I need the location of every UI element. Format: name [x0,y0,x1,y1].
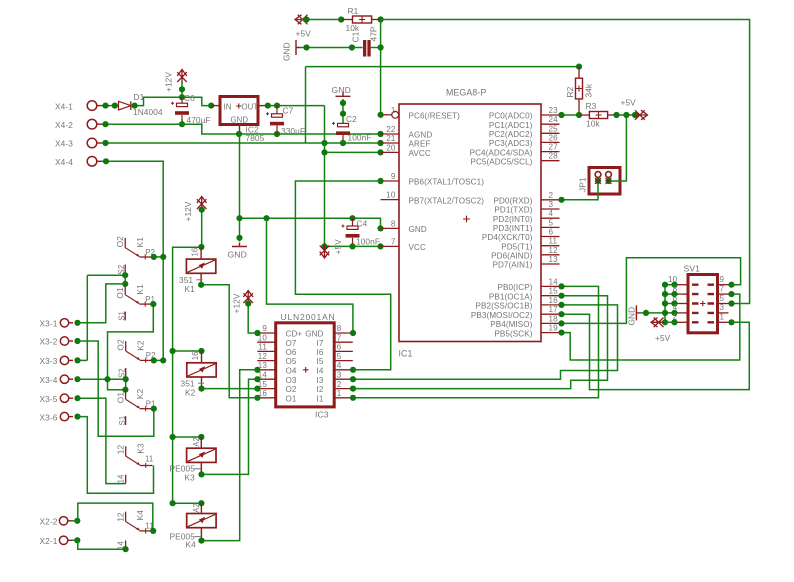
svg-text:I7: I7 [317,339,324,348]
svg-text:GND: GND [332,85,351,95]
svg-text:6: 6 [337,343,342,352]
svg-text:20: 20 [386,143,396,152]
svg-text:PB4(MISO): PB4(MISO) [490,320,532,329]
wire ULN I3 to PB2 [353,302,618,379]
wire PB4 MISO to SV1 pin9 [558,258,740,327]
svg-text:GND: GND [228,250,247,260]
svg-text:X3-1: X3-1 [40,319,58,329]
svg-text:S1: S1 [118,311,127,321]
svg-text:K4: K4 [135,510,145,521]
op-amp U1 IC1 MEGA8-P box [399,88,542,359]
svg-text:2: 2 [673,313,678,322]
svg-text:14: 14 [117,474,126,483]
svg-text:3: 3 [337,370,342,379]
svg-text:O4: O4 [286,366,297,375]
svg-text:PC1(ADC1): PC1(ADC1) [489,121,533,130]
svg-text:C4: C4 [357,218,368,228]
svg-text:O6: O6 [286,348,297,357]
wire X4-3 +5V AREF row [101,140,384,146]
svg-text:10: 10 [668,275,678,284]
svg-text:8: 8 [673,284,678,293]
svg-text:O1: O1 [115,287,125,299]
relay K4 coil [170,503,217,550]
svg-text:+12V: +12V [232,293,242,313]
svg-text:PD6(AIND): PD6(AIND) [491,252,533,261]
svg-text:34k: 34k [584,83,594,97]
wire ULN I1 to PB0 [353,283,599,398]
wire R3 to +5V [613,112,641,118]
diode D1 1N4004 [119,92,163,117]
wire C6 bottom to X4-2/GND rail [179,120,185,128]
IC1 pin1 junction dot [377,112,383,184]
svg-text:PC5(ADC5/SCL): PC5(ADC5/SCL) [470,157,532,166]
svg-text:IC1: IC1 [399,349,413,359]
svg-text:14: 14 [549,277,559,286]
svg-text:K4: K4 [186,540,197,550]
svg-text:GND: GND [409,225,427,234]
svg-text:PB7(XTAL2/TOSC2): PB7(XTAL2/TOSC2) [409,196,485,205]
wire X3-3 riser [78,275,88,360]
svg-text:+12V: +12V [183,201,193,221]
svg-text:VCC: VCC [409,243,426,252]
svg-text:PD3(INT1): PD3(INT1) [493,224,533,233]
wire X3-4 to K2a S and K2b O [78,376,129,393]
connector X4-1 [55,101,101,112]
svg-text:11: 11 [549,237,558,246]
svg-text:O2: O2 [286,385,297,394]
svg-text:C7: C7 [283,106,294,116]
svg-text:PC0(ADC0): PC0(ADC0) [489,112,533,121]
svg-text:X3-5: X3-5 [40,394,58,404]
svg-text:C2: C2 [346,114,357,124]
capacitor C2 100nF [332,99,372,143]
junction dots ULN pins [254,330,356,401]
wire PC0 row [558,112,582,118]
ground symbol GND (SV1) [627,305,641,325]
svg-text:1: 1 [720,313,725,322]
supply +5V arrow (R1 pull-up) [295,15,311,39]
relay K2 coil [181,351,217,397]
svg-text:AREF: AREF [409,140,431,149]
svg-text:X4-2: X4-2 [55,120,73,130]
svg-text:12: 12 [258,352,268,361]
svg-text:16: 16 [191,248,200,257]
svg-text:IC3: IC3 [315,410,329,420]
svg-text:12: 12 [549,246,559,255]
svg-text:K3: K3 [185,472,196,482]
connector X4-2 [55,119,101,130]
svg-text:X4-3: X4-3 [55,139,73,149]
relay K1 contact b [115,284,155,321]
svg-text:5: 5 [337,352,342,361]
svg-text:15: 15 [549,287,559,296]
svg-text:I1: I1 [317,394,324,403]
wire K1a S to X3-1/X3-3 [87,272,128,287]
svg-text:JP1: JP1 [578,177,588,192]
svg-text:PC3(ADC3): PC3(ADC3) [489,139,533,148]
svg-text:25: 25 [549,124,559,133]
svg-text:GND: GND [282,42,292,61]
wire PB5 SCK to SV1 pin7 [558,294,739,360]
svg-text:X2-1: X2-1 [40,536,58,546]
svg-text:C1: C1 [351,31,361,42]
svg-text:1: 1 [337,389,342,398]
svg-text:GND: GND [231,115,249,124]
svg-text:K3: K3 [135,443,145,454]
svg-text:SV1: SV1 [684,264,701,274]
wire K1 coil to ULN O1 [198,282,257,398]
svg-text:+12V: +12V [164,72,174,92]
svg-text:R3: R3 [586,101,597,111]
connector X2-1 [40,536,81,546]
relay K2 contact a [116,339,156,378]
wire GND rail to ULN pin8 [267,218,353,333]
svg-text:PD7(AIN1): PD7(AIN1) [492,261,532,270]
svg-text:18: 18 [549,314,559,323]
svg-text:+5V: +5V [296,28,312,38]
svg-text:R2: R2 [565,86,575,97]
svg-text:+5V: +5V [655,333,671,343]
svg-text:X4-1: X4-1 [55,101,73,111]
supply +5V arrow (VCC) [320,239,343,258]
wire K1a pivot to X4-4 line [151,254,167,260]
svg-text:21: 21 [386,134,396,143]
wire SV1 GND rows [640,282,677,326]
svg-text:PB1(OC1A): PB1(OC1A) [489,292,533,301]
ground symbol GND (C2) [332,85,351,96]
wire X3-1 to K1b O [78,284,126,323]
wire ULN I2 to PB1 [353,293,608,389]
connector X4-4 [55,157,101,168]
svg-text:O1: O1 [286,394,297,403]
svg-text:PB0(ICP): PB0(ICP) [498,283,533,292]
connector SV1 [668,264,729,333]
svg-text:I4: I4 [317,366,324,375]
wire C1 right to RESET [371,44,384,50]
svg-text:GND: GND [627,307,637,326]
svg-text:12: 12 [115,512,125,522]
svg-text:+5V: +5V [621,98,637,108]
svg-text:X4-4: X4-4 [55,157,73,167]
wire X2-1 to K4 pin14 [72,540,129,552]
jumper JP1 [578,168,621,195]
svg-text:7: 7 [337,333,342,342]
svg-text:PC6(/RESET): PC6(/RESET) [409,112,461,121]
svg-text:I3: I3 [317,376,324,385]
ground symbol GND (logic) [228,243,248,260]
resistor R3 10k [581,101,617,129]
relay K3 contact [116,443,154,484]
svg-text:GND: GND [305,330,323,339]
svg-text:4: 4 [549,209,554,218]
connector X2-2 [40,517,81,527]
svg-text:1N4004: 1N4004 [133,107,163,117]
supply +5V arrow (SV1 pin2) [651,318,677,344]
svg-text:K1: K1 [185,284,196,294]
connector X3 pads [40,319,74,423]
supply +12V arrow (ULN CD+) [232,291,258,334]
capacitor C7 330uF [265,103,325,136]
svg-text:K1: K1 [135,237,145,248]
svg-text:24: 24 [549,115,559,124]
svg-text:S1: S1 [118,416,127,426]
svg-text:9: 9 [720,275,725,284]
svg-text:10k: 10k [346,23,360,33]
relay K3 coil [170,437,217,482]
wire K2 coil to ULN O2 [198,386,257,392]
svg-text:I6: I6 [317,348,324,357]
svg-text:28: 28 [549,152,559,161]
svg-text:7: 7 [720,284,725,293]
IC3 ULN2001AN box [257,312,353,420]
junction dots R1 row [303,16,383,22]
svg-text:AVCC: AVCC [409,149,431,158]
svg-text:5: 5 [549,218,554,227]
svg-text:4: 4 [337,361,342,370]
svg-text:12: 12 [116,444,126,454]
svg-text:+5V: +5V [333,239,343,255]
relay K1 coil [179,247,216,294]
wire JP1 pin2 to +5V [605,115,626,184]
svg-text:11: 11 [145,455,153,464]
wire X3-6 to K3 pin11 [78,417,154,494]
svg-text:PB2(SS/OC1B): PB2(SS/OC1B) [476,302,533,311]
svg-text:ULN2001AN: ULN2001AN [281,312,336,322]
svg-text:C6: C6 [184,93,195,103]
svg-text:X3-4: X3-4 [40,375,58,385]
svg-text:5: 5 [720,294,725,303]
ground symbol GND (C1) [282,40,301,61]
svg-text:K2: K2 [185,387,196,397]
svg-text:X3-2: X3-2 [40,337,58,347]
svg-text:23: 23 [549,106,559,115]
svg-text:O2: O2 [116,339,126,351]
svg-text:1: 1 [391,106,396,115]
connector X4-3 [55,138,101,149]
voltage regulator IC2 7805 [211,97,268,144]
relay K4 contact [115,510,153,550]
svg-text:7: 7 [391,237,396,246]
svg-text:O5: O5 [286,357,297,366]
svg-text:10k: 10k [586,119,600,129]
wire +12V rail to coil tops [170,244,205,506]
svg-text:O1: O1 [115,392,125,404]
svg-text:PD0(RXD): PD0(RXD) [493,197,532,206]
svg-text:K1: K1 [135,284,145,295]
junction dots X3 [74,320,80,420]
svg-text:R1: R1 [348,6,359,16]
svg-text:100nF: 100nF [356,237,380,247]
resistor R1 10k [341,6,380,33]
svg-text:26: 26 [549,133,559,142]
svg-text:O3: O3 [286,376,297,385]
svg-text:4: 4 [673,303,678,312]
wire PB3 MOSI to SV1 pin1 [558,311,749,390]
resistor R2 34k [565,67,594,115]
svg-text:X3-3: X3-3 [40,356,58,366]
svg-text:330µF: 330µF [281,126,305,136]
svg-text:16: 16 [549,296,559,305]
svg-text:2: 2 [337,380,342,389]
svg-text:6: 6 [549,228,554,237]
svg-text:X2-2: X2-2 [40,517,58,527]
wire +5V to R1 [300,19,341,21]
capacitor C6 470uF [171,93,211,125]
svg-text:O2: O2 [115,236,125,248]
wire X3-5 to K3 pin14 [78,398,126,483]
wire X2-2 to K4 pin11 [72,503,156,534]
svg-text:2: 2 [549,191,554,200]
wire K3 coil to ULN O3 [198,379,257,477]
svg-text:A2: A2 [192,503,201,513]
svg-text:K2: K2 [135,340,145,351]
wire X4-4 down to relay contacts [101,158,163,360]
svg-text:A2: A2 [192,437,201,447]
svg-text:K2: K2 [135,388,145,399]
svg-text:PD2(INT0): PD2(INT0) [493,215,533,224]
svg-text:13: 13 [549,255,559,264]
svg-text:X3-6: X3-6 [40,412,58,422]
wire X3-2 to K2b pivot [78,341,157,436]
svg-text:9: 9 [262,324,267,333]
svg-text:8: 8 [337,324,342,333]
svg-text:3: 3 [720,303,725,312]
svg-text:MEGA8-P: MEGA8-P [446,88,486,98]
wire K1b pivot to X3-4 row [108,301,157,390]
svg-text:IN: IN [224,102,232,111]
junction dots SV1 right [728,282,734,326]
capacitor C1 47P [351,26,379,56]
svg-text:O7: O7 [286,339,297,348]
wire X4-1 to D1 [101,103,119,109]
supply +12V arrow (relays) [183,197,207,248]
svg-text:11: 11 [258,343,267,352]
relay K2 contact b [115,388,155,425]
svg-text:CD+: CD+ [286,330,303,339]
svg-text:PB5(SCK): PB5(SCK) [494,329,532,338]
svg-text:16: 16 [191,351,200,360]
svg-text:3: 3 [549,200,554,209]
svg-text:PD4(XCK/T0): PD4(XCK/T0) [482,233,533,242]
wire GND to C1 [300,44,363,50]
supply +5V arrow (right) [621,98,648,120]
relay K1 contact a [115,236,155,275]
svg-text:I5: I5 [317,357,324,366]
wire RESET net to right and down to SV1 pin5 [381,20,750,304]
wire ground rail under IC2 down to pin8 [236,134,383,242]
svg-text:19: 19 [549,324,559,333]
wire K4 coil to ULN O4 [198,370,257,544]
wire +5V from IC2 OUT down to VCC [306,64,583,250]
wire K2a pivot to X4-4 line [151,357,167,363]
svg-text:470µF: 470µF [187,115,211,125]
svg-text:AGND: AGND [409,131,433,140]
svg-text:OUT: OUT [242,102,259,111]
svg-text:8: 8 [391,219,396,228]
wire JP1 pin1 to PD0 [558,178,601,203]
svg-text:22: 22 [386,125,396,134]
capacitor C4 100nF [342,215,381,249]
svg-text:I2: I2 [317,385,324,394]
svg-text:6: 6 [673,294,678,303]
svg-text:PB3(MOSI/OC2): PB3(MOSI/OC2) [471,311,533,320]
svg-text:47P: 47P [369,26,379,41]
svg-text:PC4(ADC4/SDA): PC4(ADC4/SDA) [470,148,533,157]
wire X4-2 ground rail to AGND pin22 [101,121,384,137]
wire PB6 to ULN I4 [295,181,390,370]
wire D1 cathode over to IC2 IN [131,94,214,109]
svg-text:PB6(XTAL1/TOSC1): PB6(XTAL1/TOSC1) [409,178,485,187]
svg-text:9: 9 [391,172,396,181]
supply +12V arrow (input) [164,70,187,98]
svg-text:27: 27 [549,143,559,152]
IC1 right pin stubs and numbers [470,106,560,338]
svg-text:PD5(T1): PD5(T1) [501,242,532,251]
svg-text:17: 17 [549,305,559,314]
svg-text:10: 10 [386,191,396,200]
svg-text:PC2(ADC2): PC2(ADC2) [489,130,533,139]
svg-text:PD1(TXD): PD1(TXD) [494,206,532,215]
svg-text:100nF: 100nF [348,133,372,143]
IC1 left pin stubs and numbers [381,106,485,252]
